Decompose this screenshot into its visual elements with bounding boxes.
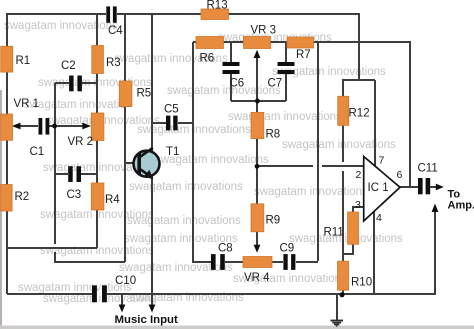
wire pin7 drop — [374, 80, 376, 167]
wire C11 to arrow — [430, 186, 439, 188]
label R12 — [349, 108, 370, 120]
VR3 wiper arrow up — [256, 54, 258, 101]
resistor R2 — [1, 185, 12, 212]
svg-text:swagatam innovations: swagatam innovations — [137, 124, 251, 136]
svg-text:4: 4 — [376, 212, 382, 224]
wire VR2-R4 column — [96, 140, 98, 248]
svg-text:C6: C6 — [230, 78, 245, 90]
wire ground stub — [336, 294, 338, 320]
svg-text:R8: R8 — [266, 129, 281, 141]
input arrow right (emitter) — [149, 305, 156, 313]
svg-text:C10: C10 — [115, 275, 136, 287]
transistor T1 — [134, 148, 160, 179]
wire C1 row — [49, 125, 55, 127]
label R10 — [351, 277, 372, 289]
wire VR2 wiper arrow — [55, 125, 87, 127]
label R5 — [137, 88, 152, 100]
svg-text:VR 2: VR 2 — [68, 136, 94, 148]
wire pin4 drop — [373, 212, 375, 294]
capacitor C3 — [68, 166, 81, 182]
wire treble row C8-VR4-C9 — [225, 261, 318, 263]
svg-text:T1: T1 — [166, 146, 179, 158]
wire supply jog — [343, 80, 375, 97]
wire opamp output — [400, 186, 418, 188]
svg-text:VR 4: VR 4 — [244, 272, 270, 284]
label R6 — [200, 53, 215, 65]
capacitor C6 — [223, 62, 240, 74]
capacitor C5 — [166, 116, 178, 131]
svg-text:3: 3 — [355, 199, 361, 211]
wire VR3 row links — [193, 42, 410, 187]
svg-text:C8: C8 — [218, 243, 233, 255]
label C5 — [164, 104, 179, 116]
svg-text:C2: C2 — [61, 60, 76, 72]
resistor R5 — [119, 81, 132, 107]
wire C2 row — [55, 82, 97, 84]
edge shading bottom — [0, 326, 474, 329]
label C2 — [61, 60, 76, 72]
label IC 1 — [368, 182, 389, 194]
wire left column — [6, 13, 8, 294]
wire bottom bus to C10 — [7, 293, 92, 295]
label C9 — [280, 243, 295, 255]
label R13 — [207, 0, 228, 12]
node wiper junction — [52, 124, 57, 129]
svg-text:swagatam innovatio: swagatam innovatio — [24, 99, 126, 111]
label R3 — [106, 57, 121, 69]
capacitor C9 — [283, 254, 295, 270]
wire pin2 row (hops over C9 riser) — [257, 165, 364, 167]
resistor R4 — [91, 183, 104, 210]
wire R12-R10 column (hops over pin2 row) — [342, 125, 344, 294]
resistor R1 — [1, 46, 13, 72]
label VR 4 — [244, 272, 270, 284]
svg-text:VR 1: VR 1 — [14, 98, 40, 110]
svg-text:swagatam innovations: swagatam innovations — [254, 186, 368, 198]
label T1 — [166, 146, 179, 158]
pin 6 label — [397, 169, 403, 181]
label C4 — [108, 25, 123, 37]
wire C7 stubs — [285, 42, 287, 101]
svg-text:swagatam innovations: swagatam innovations — [4, 20, 118, 32]
capacitor C2 — [69, 76, 82, 92]
pin 7 label — [379, 155, 385, 167]
potentiometer VR1 body — [1, 114, 13, 140]
svg-text:C5: C5 — [164, 104, 179, 116]
wire R8-R9 column — [256, 101, 258, 249]
wire top bus — [7, 13, 106, 15]
node ground junction — [340, 292, 345, 297]
resistor R6 — [196, 37, 224, 49]
svg-text:R10: R10 — [351, 277, 372, 289]
wire top bus R13 to right corner — [228, 14, 359, 80]
svg-text:C1: C1 — [30, 146, 45, 158]
wire R11 bottom jog — [343, 244, 353, 254]
label R11 — [324, 227, 344, 239]
svg-text:swagatam innovations: swagatam innovations — [119, 262, 233, 274]
label C7 — [268, 78, 283, 90]
svg-text:C3: C3 — [67, 189, 82, 201]
svg-text:6: 6 — [397, 169, 403, 181]
svg-text:R9: R9 — [266, 215, 281, 227]
label R1 — [16, 55, 31, 67]
svg-text:R6: R6 — [200, 53, 215, 65]
svg-text:swagatam innovations: swagatam innovations — [228, 111, 342, 123]
wire C3 row — [55, 173, 97, 175]
svg-text:R7: R7 — [296, 49, 311, 61]
svg-text:VR 3: VR 3 — [251, 25, 277, 37]
svg-text:Amp.: Amp. — [448, 199, 474, 211]
pin 2 label — [356, 169, 362, 181]
wire C6 stubs — [230, 42, 232, 101]
capacitor C8 — [211, 254, 225, 270]
wire top bus right of C4 — [117, 13, 201, 15]
op-amp IC1 — [364, 157, 400, 222]
label VR 2 — [68, 136, 94, 148]
resistor R9 — [251, 204, 264, 232]
wire R3 column — [96, 14, 98, 113]
wire T1 base — [125, 162, 138, 164]
VR4 wiper arrow down — [254, 245, 261, 253]
resistor R11 — [348, 212, 359, 244]
edge shading left — [0, 90, 2, 329]
wire R11 top to pin3 — [353, 207, 364, 212]
svg-text:swagatam innovations: swagatam innovations — [167, 85, 281, 97]
label C3 — [67, 189, 82, 201]
label C10 — [115, 275, 136, 287]
ground symbol — [331, 320, 344, 327]
svg-text:R11: R11 — [324, 227, 344, 239]
svg-text:IC 1: IC 1 — [368, 182, 389, 194]
wire bottom bus ground run — [107, 208, 435, 294]
label C1 — [30, 146, 45, 158]
label R9 — [266, 215, 281, 227]
resistor R8 — [251, 112, 264, 138]
svg-text:Music Input: Music Input — [115, 314, 178, 326]
wire C9 riser — [317, 42, 319, 261]
svg-text:C9: C9 — [280, 243, 295, 255]
svg-text:R1: R1 — [16, 55, 31, 67]
label C8 — [218, 243, 233, 255]
wire R6 left column — [193, 42, 211, 262]
wire C5 row — [152, 122, 193, 124]
capacitor C7 — [278, 62, 295, 74]
svg-text:C11: C11 — [418, 163, 438, 175]
svg-text:C7: C7 — [268, 78, 283, 90]
svg-text:C4: C4 — [108, 25, 123, 37]
pin 4 label — [376, 212, 382, 224]
potentiometer VR4 body — [243, 257, 272, 268]
wire emitter down to input — [151, 176, 153, 308]
capacitor C1 — [39, 118, 50, 135]
potentiometer VR2 body — [91, 113, 104, 141]
svg-text:R5: R5 — [137, 88, 152, 100]
label R4 — [105, 194, 120, 206]
svg-text:7: 7 — [379, 155, 385, 167]
svg-text:R4: R4 — [105, 194, 120, 206]
wire VR1 wiper arrow — [16, 125, 38, 127]
resistor R13 — [201, 9, 229, 20]
watermarks — [4, 20, 403, 305]
node R8-R9 junction — [255, 164, 260, 169]
label VR 3 — [251, 25, 277, 37]
svg-text:R12: R12 — [349, 108, 370, 120]
svg-text:R3: R3 — [106, 57, 121, 69]
capacitor C4 — [106, 6, 116, 22]
node VR3 wiper junction — [255, 99, 260, 104]
svg-text:R2: R2 — [15, 191, 30, 203]
potentiometer VR3 body — [244, 37, 271, 49]
wire VR3 bottom tie — [231, 100, 286, 102]
label VR 1 — [14, 98, 40, 110]
svg-text:2: 2 — [356, 169, 362, 181]
wire wiper column — [55, 83, 125, 262]
label R7 — [296, 49, 311, 61]
wire T1 collector — [151, 14, 153, 151]
resistor R3 — [92, 46, 104, 74]
capacitor C11 — [418, 178, 430, 194]
label C11 — [418, 163, 438, 175]
svg-text:swagatam innovations: swagatam innovations — [289, 233, 403, 245]
label R2 — [15, 191, 30, 203]
svg-text:swagatam innovations: swagatam innovations — [127, 215, 241, 227]
ground-return arrowhead — [432, 204, 439, 213]
resistor R7 — [287, 37, 314, 48]
capacitor C10 — [92, 285, 107, 302]
svg-text:swagatam innovations: swagatam innovations — [129, 181, 243, 193]
wire line A (R2-R4 bottom tie) — [7, 247, 97, 249]
input arrow left — [121, 294, 123, 308]
label R8 — [266, 129, 281, 141]
svg-text:R13: R13 — [207, 0, 228, 12]
wire R5/base column — [124, 14, 126, 262]
pin 3 label — [355, 199, 361, 211]
svg-text:swagatam innovations: swagatam innovations — [282, 139, 396, 151]
resistor R10 — [338, 261, 349, 290]
resistor R12 — [338, 96, 349, 125]
label C6 — [230, 78, 245, 90]
